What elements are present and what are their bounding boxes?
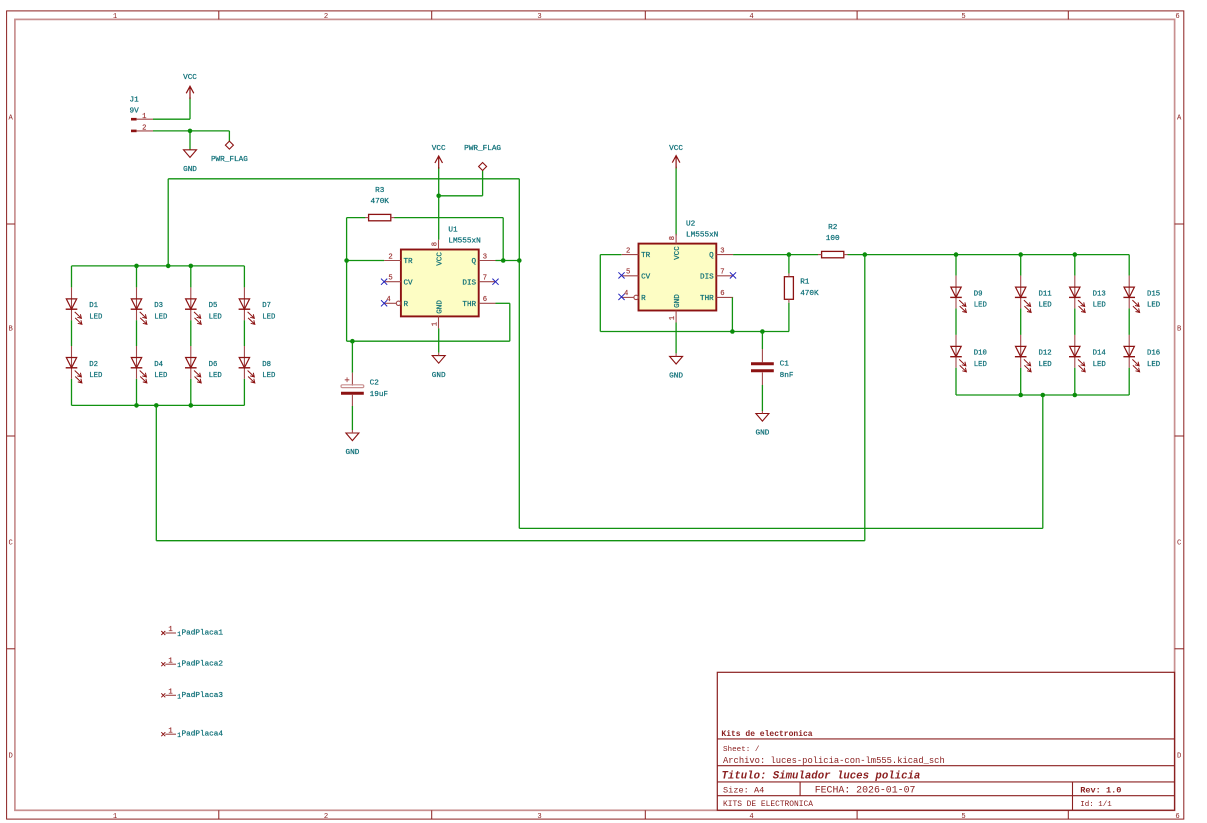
power PWR_FLAG (J1)	[211, 131, 248, 164]
svg-text:Titulo: Simulador luces polici: Titulo: Simulador luces policia	[722, 770, 921, 782]
svg-text:U2: U2	[686, 221, 696, 229]
svg-text:8nF: 8nF	[780, 372, 794, 380]
svg-text:LED: LED	[89, 372, 103, 380]
wire U1.Q net left drop to left LED top rail	[167, 179, 169, 266]
LED D10	[950, 335, 987, 372]
svg-text:8: 8	[431, 242, 439, 246]
svg-text:R3: R3	[375, 187, 385, 195]
wire U1.Q net bottom run	[519, 527, 1043, 529]
svg-text:GND: GND	[674, 294, 682, 308]
wire U1.Q net rise to right LED bottom rail	[1042, 395, 1044, 528]
svg-text:A: A	[9, 115, 14, 123]
svg-text:4: 4	[749, 13, 753, 21]
wire R1 bottom lead	[788, 303, 790, 332]
svg-text:B: B	[9, 326, 14, 334]
LED D1	[66, 287, 103, 324]
wire U2.TR loop	[600, 255, 789, 332]
svg-text:GND: GND	[755, 430, 769, 438]
ground GND (C2)	[345, 430, 359, 457]
svg-text:1: 1	[113, 813, 117, 821]
wire left LED bottom rail to lower loop	[156, 405, 865, 540]
svg-text:2: 2	[388, 253, 392, 261]
svg-text:Rev: 1.0: Rev: 1.0	[1080, 786, 1121, 796]
wire U1.THR loop	[347, 303, 510, 341]
svg-text:6: 6	[1175, 813, 1179, 821]
wire R3 left to U1.TR vertical	[347, 218, 366, 342]
svg-text:1: 1	[142, 113, 146, 121]
svg-text:1: 1	[113, 13, 117, 21]
LED D9	[950, 276, 987, 313]
wire left LED column 4	[243, 266, 245, 406]
svg-text:9V: 9V	[130, 108, 140, 116]
wire U1.Q net right drop	[518, 179, 520, 529]
svg-text:THR: THR	[462, 301, 476, 309]
svg-text:Q: Q	[472, 258, 477, 266]
svg-text:6: 6	[720, 290, 724, 298]
ground GND (C1)	[755, 411, 769, 438]
LED D4	[131, 346, 168, 383]
title block	[717, 672, 1174, 810]
svg-text:R2: R2	[828, 224, 838, 232]
wire C1 top lead	[761, 332, 763, 363]
svg-text:D3: D3	[154, 302, 163, 310]
connector J1	[130, 97, 154, 133]
LED D7	[239, 287, 276, 324]
svg-text:19uF: 19uF	[370, 391, 389, 399]
svg-text:D8: D8	[262, 361, 271, 369]
junction R2 right	[863, 252, 868, 257]
LED D5	[185, 287, 222, 324]
wire U1.Q to vertical	[496, 260, 520, 262]
svg-text:2: 2	[324, 13, 328, 21]
svg-text:+: +	[344, 376, 349, 386]
svg-text:470K: 470K	[800, 290, 819, 298]
svg-text:D: D	[9, 753, 13, 761]
wire C1 bottom lead	[761, 372, 763, 411]
svg-text:LED: LED	[262, 313, 276, 321]
svg-text:Q: Q	[709, 252, 714, 260]
wire C2 bottom lead	[351, 395, 353, 430]
wire J1.2 to GND/PWR_FLAG	[153, 130, 229, 132]
wire R2 right node	[848, 254, 957, 256]
LED D3	[131, 287, 168, 324]
svg-text:VCC: VCC	[432, 145, 446, 153]
svg-text:D2: D2	[89, 361, 98, 369]
svg-text:5: 5	[626, 269, 630, 277]
svg-text:D: D	[1177, 753, 1181, 761]
svg-text:6: 6	[483, 296, 487, 304]
LED D13	[1069, 276, 1106, 313]
LED D6	[185, 346, 222, 383]
svg-text:J1: J1	[130, 97, 140, 105]
wire U1.Q net top run	[168, 178, 519, 180]
no-connect U2 pin7	[730, 272, 736, 278]
svg-text:DIS: DIS	[462, 279, 476, 287]
svg-text:3: 3	[537, 13, 541, 21]
svg-text:D16: D16	[1147, 350, 1160, 358]
svg-text:1: 1	[669, 316, 677, 320]
power PWR_FLAG (U1)	[464, 145, 501, 196]
svg-text:LED: LED	[974, 302, 988, 310]
svg-text:PWR_FLAG: PWR_FLAG	[211, 156, 248, 164]
svg-text:C: C	[1177, 540, 1182, 548]
wire left LED top rail	[72, 265, 245, 267]
no-connect U2 pin5	[618, 272, 624, 278]
svg-text:LED: LED	[209, 313, 223, 321]
LED D8	[239, 346, 276, 383]
svg-text:Kits de electronica: Kits de electronica	[721, 730, 812, 739]
svg-text:TR: TR	[641, 252, 651, 260]
junction J1.2 node	[188, 129, 193, 134]
wire R2 node drop to lower loop	[864, 255, 866, 541]
svg-text:LM555xN: LM555xN	[686, 231, 718, 239]
svg-text:GND: GND	[345, 449, 359, 457]
svg-text:PWR_FLAG: PWR_FLAG	[464, 145, 501, 153]
svg-text:LED: LED	[89, 313, 103, 321]
svg-text:3: 3	[483, 253, 487, 261]
LED D16	[1123, 335, 1160, 372]
wire R3 right to U1.Q	[394, 218, 503, 261]
wire U2.Q to R1/R2	[733, 254, 818, 256]
svg-text:5: 5	[961, 813, 965, 821]
svg-text:6: 6	[1175, 13, 1179, 21]
svg-text:Archivo: luces-policia-con-lm5: Archivo: luces-policia-con-lm555.kicad_s…	[723, 756, 945, 766]
svg-text:TR: TR	[404, 258, 414, 266]
svg-text:LED: LED	[974, 361, 988, 369]
capacitor C2 19uF	[341, 376, 388, 399]
svg-text:LED: LED	[262, 372, 276, 380]
resistor R3 470K	[365, 187, 395, 221]
svg-text:LED: LED	[154, 313, 168, 321]
svg-text:7: 7	[483, 275, 487, 283]
wire right LED bottom rail	[956, 394, 1129, 396]
svg-text:1: 1	[168, 657, 172, 665]
svg-text:3: 3	[720, 247, 724, 255]
svg-text:Size: A4: Size: A4	[723, 786, 764, 796]
power VCC (J1)	[183, 74, 197, 119]
LED D14	[1069, 335, 1106, 372]
svg-text:B: B	[1177, 326, 1182, 334]
LED D2	[66, 346, 103, 383]
LED D11	[1015, 276, 1052, 313]
svg-text:LED: LED	[154, 372, 168, 380]
svg-text:D10: D10	[974, 350, 987, 358]
svg-text:100: 100	[826, 235, 840, 243]
wire U2.GND	[675, 323, 677, 354]
resistor R2 100	[818, 224, 848, 258]
wire right LED column 1	[955, 255, 957, 395]
junction U2.THR	[730, 329, 735, 334]
junction C2 tap	[350, 339, 355, 344]
svg-text:GND: GND	[436, 300, 444, 314]
junction U1 VCC / PWR_FLAG	[436, 194, 441, 199]
svg-text:PadPlaca2: PadPlaca2	[182, 661, 224, 669]
junctions left LED rails	[134, 264, 193, 408]
wire C2 top lead	[351, 341, 353, 385]
svg-text:VCC: VCC	[674, 246, 682, 260]
svg-text:D9: D9	[974, 290, 983, 298]
op-amp timer U2 LM555xN	[622, 221, 733, 323]
svg-text:D11: D11	[1039, 290, 1053, 298]
wire PWR_FLAG tap (U1)	[439, 195, 483, 197]
svg-text:CV: CV	[404, 279, 414, 287]
junction U1.Q b	[517, 258, 522, 263]
ground GND (J1)	[183, 131, 197, 174]
wire left LED bottom rail	[72, 404, 245, 406]
junctions right LED rails	[954, 252, 1077, 397]
svg-text:2: 2	[626, 247, 630, 255]
op-amp timer U1 LM555xN	[384, 227, 495, 329]
wire right LED column 2	[1020, 255, 1022, 395]
svg-text:C: C	[9, 540, 14, 548]
svg-text:D12: D12	[1039, 350, 1052, 358]
capacitor C1 8nF	[751, 361, 794, 380]
svg-text:5: 5	[961, 13, 965, 21]
svg-text:FECHA: 2026-01-07: FECHA: 2026-01-07	[815, 785, 916, 796]
wire right LED top rail	[956, 254, 1129, 256]
svg-text:R: R	[404, 301, 409, 309]
wire right LED column 3	[1074, 255, 1076, 395]
ground GND (U2)	[669, 353, 683, 380]
LED D12	[1015, 335, 1052, 372]
svg-text:LM555xN: LM555xN	[448, 237, 480, 245]
svg-text:D1: D1	[89, 302, 98, 310]
wire U1.TR	[347, 260, 385, 262]
svg-text:2: 2	[142, 125, 146, 133]
svg-text:LED: LED	[1039, 302, 1053, 310]
svg-text:7: 7	[720, 269, 724, 277]
svg-text:GND: GND	[432, 372, 446, 380]
svg-text:1: 1	[168, 689, 172, 697]
no-connect U1 pin7	[492, 279, 498, 285]
svg-text:D4: D4	[154, 361, 163, 369]
svg-text:DIS: DIS	[700, 273, 714, 281]
svg-text:VCC: VCC	[436, 252, 444, 266]
svg-text:LED: LED	[1039, 361, 1053, 369]
power VCC (U2)	[669, 145, 683, 236]
svg-text:R: R	[641, 295, 646, 303]
svg-text:PadPlaca1: PadPlaca1	[182, 630, 224, 638]
wire left LED column 3	[190, 266, 192, 406]
svg-text:VCC: VCC	[669, 145, 683, 153]
svg-text:CV: CV	[641, 273, 651, 281]
svg-text:C1: C1	[780, 361, 790, 369]
svg-text:5: 5	[388, 275, 392, 283]
svg-text:PadPlaca3: PadPlaca3	[182, 692, 224, 700]
svg-text:R1: R1	[800, 279, 810, 287]
junction U1.Q a	[501, 258, 506, 263]
svg-text:3: 3	[537, 813, 541, 821]
svg-text:2: 2	[324, 813, 328, 821]
svg-text:1: 1	[168, 626, 172, 634]
svg-text:LED: LED	[1093, 361, 1107, 369]
svg-text:A: A	[1177, 115, 1182, 123]
svg-text:C2: C2	[370, 379, 380, 387]
svg-text:Id: 1/1: Id: 1/1	[1080, 801, 1112, 809]
LED D15	[1123, 276, 1160, 313]
svg-text:1: 1	[431, 322, 439, 326]
pad PadPlaca4	[161, 727, 223, 739]
svg-text:4: 4	[749, 813, 753, 821]
no-connect U2 pin4	[618, 294, 624, 300]
svg-text:THR: THR	[700, 295, 714, 303]
pad PadPlaca1	[161, 626, 223, 638]
junction C1 tap	[760, 329, 765, 334]
resistor R1 470K	[784, 273, 819, 303]
junction U2.Q	[787, 252, 792, 257]
svg-text:LED: LED	[1147, 361, 1161, 369]
svg-text:470K: 470K	[370, 198, 389, 206]
svg-text:D5: D5	[209, 302, 218, 310]
wire U2.THR drop	[731, 297, 733, 331]
ground GND (U1)	[432, 353, 446, 380]
svg-text:GND: GND	[183, 166, 197, 174]
svg-text:D7: D7	[262, 302, 271, 310]
svg-text:LED: LED	[1093, 302, 1107, 310]
svg-text:LED: LED	[1147, 302, 1161, 310]
svg-text:U1: U1	[448, 227, 458, 235]
junction U1.TR	[344, 258, 349, 263]
wire J1.1 to VCC	[153, 118, 190, 120]
svg-text:8: 8	[669, 236, 677, 240]
svg-text:VCC: VCC	[183, 74, 197, 82]
svg-text:D13: D13	[1093, 290, 1106, 298]
pad PadPlaca2	[161, 657, 223, 669]
svg-text:D6: D6	[209, 361, 218, 369]
svg-text:PadPlaca4: PadPlaca4	[182, 731, 224, 739]
svg-text:D14: D14	[1093, 350, 1107, 358]
power VCC (U1)	[432, 145, 446, 240]
pad PadPlaca3	[161, 689, 223, 701]
svg-text:1: 1	[168, 727, 172, 735]
no-connect U1 pin4	[381, 300, 387, 306]
wire R1 top lead	[788, 255, 790, 274]
svg-text:D15: D15	[1147, 290, 1160, 298]
svg-text:GND: GND	[669, 373, 683, 381]
wire right LED column 4	[1128, 255, 1130, 395]
svg-text:KITS DE ELECTRONICA: KITS DE ELECTRONICA	[723, 800, 813, 809]
svg-text:LED: LED	[209, 372, 223, 380]
no-connect U1 pin5	[381, 279, 387, 285]
wire left LED column 2	[136, 266, 138, 406]
wire left LED column 1	[71, 266, 73, 406]
svg-text:Sheet: /: Sheet: /	[723, 746, 760, 754]
wire U1.GND	[438, 328, 440, 352]
